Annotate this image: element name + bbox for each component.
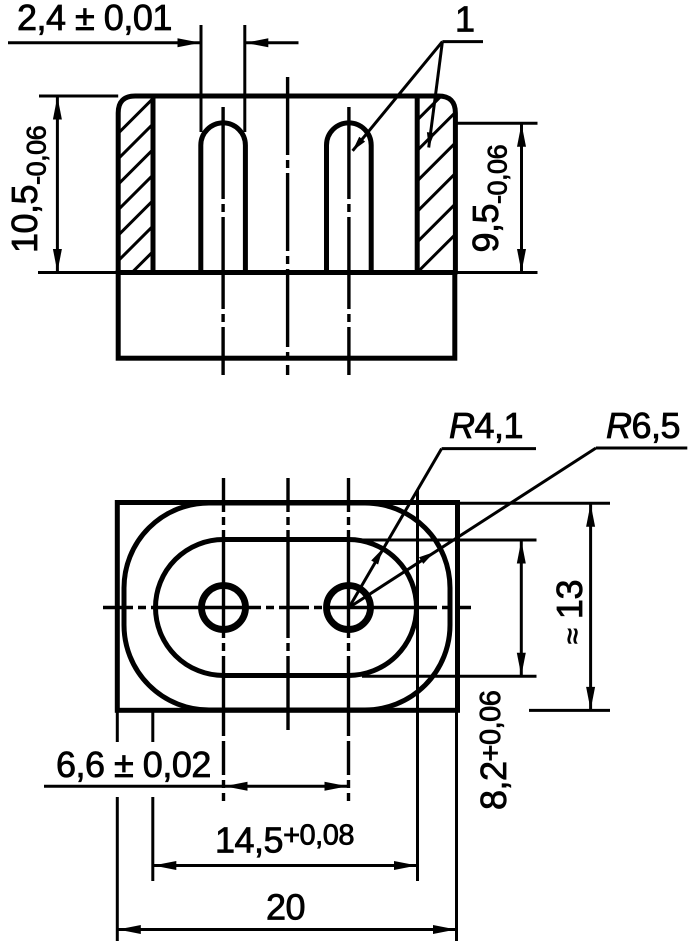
right wall inner edge (415, 96, 420, 273)
dim 6,6 dimension line (44, 785, 349, 788)
label R6,5 underline (596, 447, 687, 450)
dim 2,4 left extension line (slot edge extended) (200, 25, 203, 132)
vertical centerline left hole (222, 478, 225, 801)
bottom view outer rectangle 20 x 13 (117, 503, 457, 711)
slot 1 (left contact aperture, inverted U) (201, 123, 246, 273)
right hole circle (327, 586, 371, 630)
callout leader to slot 2 with arrow (353, 42, 443, 151)
dim 9,5 bottom extension line (455, 271, 537, 274)
dim 10,5 top extension line (39, 95, 118, 98)
dim 13 bottom extension line (529, 709, 610, 712)
dim 10,5 dimension line with arrows (56, 96, 59, 273)
dim 8,2 bottom extension line (362, 675, 537, 678)
dim 20 dimension line with arrows (117, 928, 456, 931)
dim 14,5 dimension line with arrows (153, 864, 418, 867)
callout leader to right wall with arrow (429, 42, 443, 148)
centerline slot 2 (dash-dot) (347, 107, 350, 375)
dim 2,4 dimension line left part with arrow (8, 41, 201, 44)
label R4,1 underline (442, 447, 536, 450)
extension line rect right edge extended (for 20) (455, 710, 458, 941)
extension line rect left edge extended (for 20) (116, 710, 119, 941)
dim 9,5 top extension line (slot top extended) (455, 122, 537, 125)
svg-text:R6,5: R6,5 (606, 405, 680, 446)
vertical centerline middle bottom view (286, 478, 289, 730)
top view body outline (sectioned cap, rounded top corners) (118, 96, 455, 273)
dim 13 dimension line with arrows (589, 503, 592, 710)
dim 8,2 top extension line (362, 539, 537, 542)
extension line for 14,5 right (tangent of inner obround) (416, 490, 419, 881)
inner obround R4,1 (156, 540, 417, 676)
dim 13 top extension line (458, 502, 610, 505)
dim 2,4 right extension line (slot edge extended) (243, 25, 246, 132)
svg-text:20: 20 (266, 887, 305, 928)
top view body bottom edge (thick line at section bottom) (116, 270, 457, 275)
callout underline (442, 40, 483, 43)
base block of top view (118, 273, 455, 359)
extension line for 14,5 left (151, 710, 154, 881)
left wall hatching (section lines) (108, 84, 168, 323)
svg-text:R4,1: R4,1 (449, 405, 523, 446)
right wall hatching (section lines) (407, 40, 467, 283)
slot 2 (right contact aperture, inverted U) (327, 123, 372, 273)
dim 9,5 dimension line with arrows (520, 123, 523, 272)
svg-text:2,4 ± 0,01: 2,4 ± 0,01 (17, 0, 172, 38)
dim 2,4 dimension line right part with arrow (245, 41, 298, 44)
left hole circle (202, 586, 246, 630)
horizontal centerline of bottom view (103, 606, 471, 609)
centerline slot 1 (dash-dot) (221, 107, 224, 375)
white halo behind 6,6 text (interrupts extension lines) (50, 742, 214, 797)
dim 10,5 bottom extension line (38, 271, 118, 274)
svg-text:1: 1 (455, 0, 475, 40)
vertical centerline right hole (347, 478, 350, 801)
label R4,1 leader with arrow on inner obround (349, 449, 442, 608)
centerline middle (dash-dot) (286, 77, 289, 375)
left wall inner edge (151, 96, 156, 273)
svg-text:6,6 ± 0,02: 6,6 ± 0,02 (56, 744, 211, 785)
outer obround R6,5 (124, 503, 450, 710)
dim 8,2 dimension line with arrows (520, 540, 523, 676)
label R6,5 leader with arrow on outer obround (349, 448, 596, 608)
